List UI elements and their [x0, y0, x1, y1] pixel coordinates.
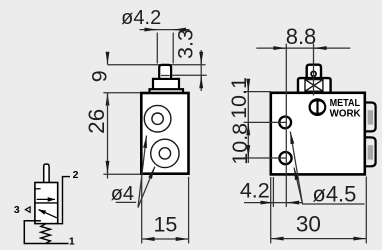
extension line at body bottom (y=174.3)	[103, 173, 141, 175]
extension upper hole axis (y=122.4)	[244, 121, 287, 123]
svg-text:WORK: WORK	[330, 108, 361, 120]
svg-text:10.8: 10.8	[228, 123, 252, 165]
lower mounting hole	[279, 152, 291, 164]
upper mounting hole	[279, 117, 291, 129]
spring	[41, 224, 51, 243]
svg-text:ø4.2: ø4.2	[121, 7, 161, 29]
clip 2 gray insert	[368, 145, 373, 159]
label 3	[14, 204, 20, 216]
dimension 9 (plunger height)	[88, 53, 112, 83]
leader o4.5 to lower hole	[294, 168, 303, 204]
dimension 3.3 (pin protrusion)	[174, 29, 202, 91]
extension line at pin shoulder (y=75.3)	[172, 74, 207, 76]
leader o4 to lower circle	[138, 167, 155, 208]
svg-text:30: 30	[296, 211, 321, 236]
leader o4 to upper circle	[138, 136, 147, 208]
dimension 8.8 (face to plunger axis)	[256, 24, 350, 49]
svg-text:3: 3	[14, 204, 20, 216]
flow arrow in top box	[37, 198, 55, 200]
upper port circle	[144, 105, 171, 132]
side plunger housing	[298, 78, 331, 93]
blocked port tick (top box)	[35, 188, 41, 190]
label o4.5 with landing	[302, 181, 365, 206]
dimension 10.8 (hole to hole)	[228, 123, 252, 165]
valve symbol body (two stacked boxes)	[35, 183, 58, 224]
front plunger cap	[153, 79, 179, 90]
extension line at body top (y=92.7)	[103, 92, 141, 94]
leader o4.5 to upper hole	[290, 132, 302, 204]
label 2	[73, 169, 79, 181]
svg-text:1: 1	[69, 236, 75, 248]
extension body top (side, y=91.6)	[244, 91, 271, 93]
valve symbol plunger pin	[44, 164, 49, 183]
side plunger pin	[307, 65, 321, 79]
dimension o4.2 (pin diameter)	[121, 7, 189, 64]
svg-text:15: 15	[153, 213, 177, 237]
front plunger pin	[159, 65, 171, 80]
side body	[271, 93, 365, 175]
spring clip 2	[365, 137, 376, 166]
port 2 line (right riser)	[58, 177, 70, 224]
hole axis construction line	[285, 44, 287, 207]
svg-text:ø4.5: ø4.5	[312, 181, 356, 206]
svg-text:2: 2	[73, 169, 79, 181]
flow arrow in bottom box	[39, 210, 57, 218]
exhaust triangle port 3	[25, 207, 30, 212]
svg-text:3.3: 3.3	[174, 29, 198, 59]
label 1	[69, 236, 75, 248]
METAL WORK logo text	[330, 97, 361, 120]
extension line at pin top (y=64.7)	[107, 64, 205, 66]
front plunger flange	[150, 89, 184, 94]
dimension 4.2 (hole axis offset)	[240, 177, 302, 207]
METAL WORK logo icon	[309, 98, 327, 116]
svg-text:9: 9	[88, 70, 112, 82]
clip 1 gray insert	[368, 110, 373, 124]
label o4	[111, 183, 136, 205]
dimension 30 (body width)	[271, 177, 367, 244]
extension lower hole axis (y=158)	[244, 157, 287, 159]
front body	[141, 93, 188, 174]
port 1 line (left L to bottom rail)	[24, 221, 68, 244]
spring clip 1	[365, 103, 376, 132]
svg-text:26: 26	[84, 109, 109, 134]
svg-text:10.1: 10.1	[227, 77, 251, 119]
dimension 15 (body width)	[142, 177, 189, 244]
dimension 26 (body height)	[84, 93, 109, 179]
pin hidden shoulder dash	[161, 75, 170, 77]
svg-text:8.8: 8.8	[286, 24, 317, 49]
dimension 10.1 (top to upper hole)	[227, 77, 251, 163]
plunger centerline	[313, 44, 315, 96]
lower port circle	[151, 139, 179, 167]
svg-text:4.2: 4.2	[240, 178, 270, 202]
roller X-box	[305, 80, 323, 92]
